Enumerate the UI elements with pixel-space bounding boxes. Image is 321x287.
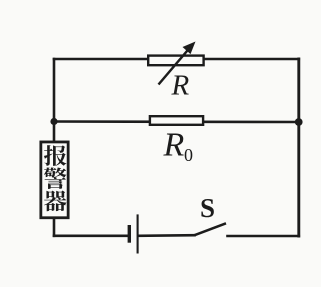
svg-text:S: S [200,193,215,223]
wire alarm bottom to bottom rail [53,219,56,236]
wire middle rail (R0 branch) [54,120,299,123]
wire switch contact to bottom-right corner [228,235,299,238]
resistor R arrowhead [183,42,196,55]
alarm char 器 [44,190,67,211]
wire left vertical top (left rail to node A) [53,59,56,122]
svg-text:R: R [163,127,185,164]
resistor R0 body [150,116,203,125]
wire right vertical [297,59,300,236]
wire top rail [54,58,299,61]
wire battery to switch pivot [139,234,195,237]
svg-text:0: 0 [184,145,193,165]
resistor R (variable) body [148,56,203,66]
svg-text:R: R [171,70,190,102]
alarm char 报 [44,145,66,166]
switch S blade [195,223,227,235]
wire bottom rail left segment [54,235,128,238]
wire node A to alarm top [53,122,56,142]
resistor R arrow shaft [159,48,191,85]
battery negative plate (short thick) [128,225,131,243]
node B junction dot (right) [295,118,303,126]
alarm char 警 [44,167,66,189]
alarm device box [41,142,68,218]
node A junction dot (left) [50,118,57,125]
battery positive plate (long thin) [137,214,139,253]
